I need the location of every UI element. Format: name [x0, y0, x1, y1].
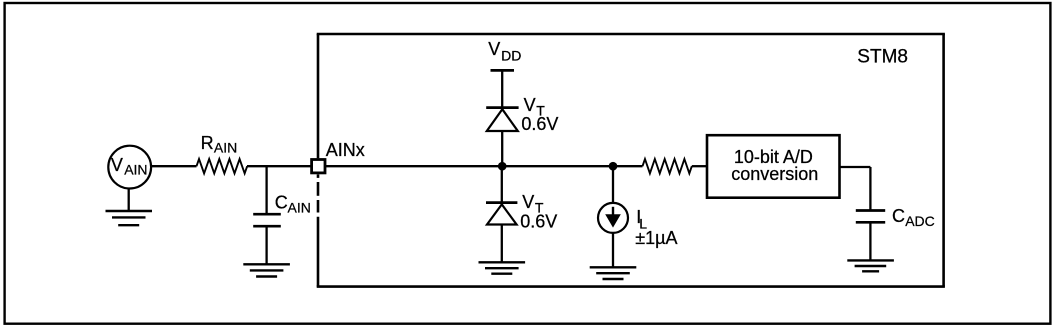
svg-text:AIN: AIN — [214, 140, 237, 156]
svg-text:±1µA: ±1µA — [635, 228, 677, 248]
svg-text:AIN: AIN — [288, 200, 311, 216]
svg-text:ADC: ADC — [905, 213, 935, 229]
svg-text:STM8: STM8 — [857, 47, 908, 68]
svg-text:V: V — [524, 95, 536, 115]
svg-text:C: C — [892, 206, 905, 226]
svg-text:0.6V: 0.6V — [521, 114, 558, 134]
svg-text:conversion: conversion — [731, 164, 818, 184]
svg-text:0.6V: 0.6V — [520, 212, 557, 232]
svg-text:R: R — [201, 133, 214, 153]
svg-text:V: V — [488, 39, 500, 59]
svg-text:AIN: AIN — [124, 162, 147, 178]
svg-text:V: V — [522, 192, 534, 212]
svg-text:DD: DD — [501, 48, 521, 64]
svg-text:V: V — [111, 155, 123, 175]
svg-text:C: C — [275, 193, 288, 213]
svg-text:AINx: AINx — [326, 140, 365, 160]
